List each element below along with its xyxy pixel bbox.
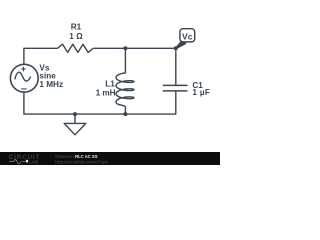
svg-text:1 Ω: 1 Ω [69,32,83,41]
svg-text:LAB: LAB [28,160,39,165]
svg-text:sine: sine [39,72,56,81]
svg-text:1 MHz: 1 MHz [39,80,63,89]
svg-text:http:⁄⁄circuitlab.com⁄c⁄7xp4: http:⁄⁄circuitlab.com⁄c⁄7xp4 [55,159,108,164]
svg-text:L1: L1 [105,80,115,89]
svg-text:1 mH: 1 mH [96,88,116,97]
svg-text:R1: R1 [71,22,82,31]
svg-text:1 µF: 1 µF [192,88,210,97]
svg-text:Vc: Vc [182,31,193,41]
